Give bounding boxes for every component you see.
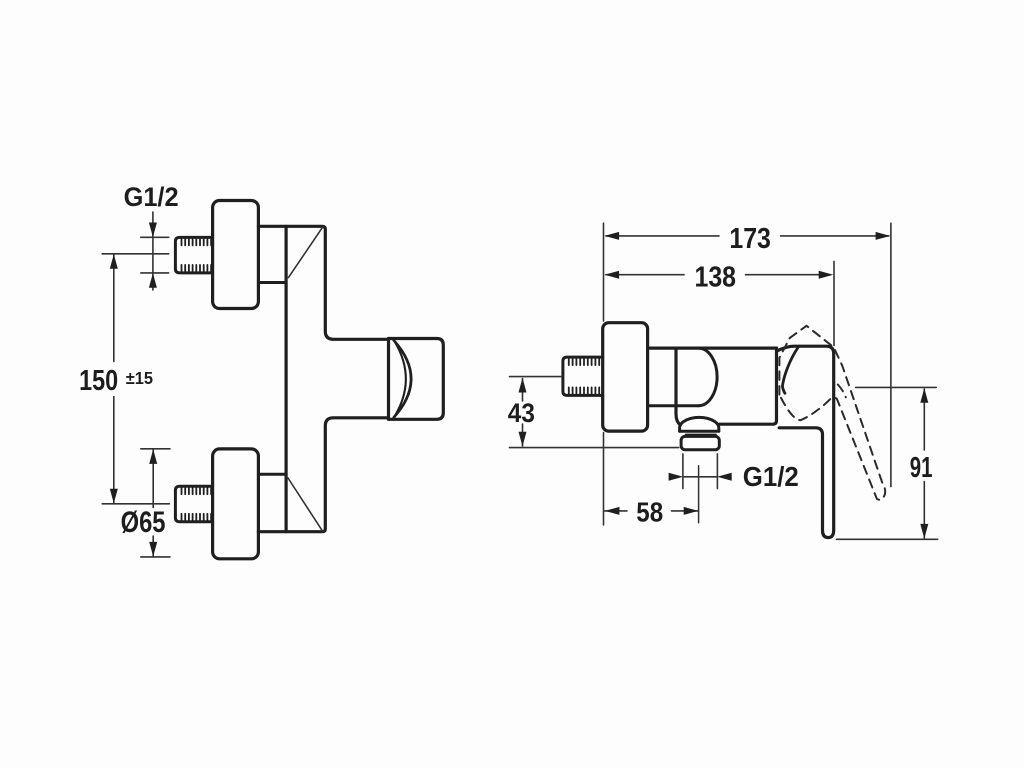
outlet nut G1/2 xyxy=(681,436,719,449)
wall flange (side) xyxy=(603,323,648,431)
connector bottom edge xyxy=(648,404,699,407)
91 reference lines xyxy=(837,387,938,539)
cartridge dome arc xyxy=(699,348,718,406)
main plate outline xyxy=(258,226,388,339)
handle cap and lever (solid, down position) xyxy=(777,346,834,537)
G1/2 arrow down xyxy=(149,223,157,238)
Ø65 arrow down xyxy=(149,542,157,557)
G1/2 arrow up xyxy=(149,273,157,288)
150 dimension reference lines xyxy=(102,254,169,504)
43 dimension line xyxy=(522,379,524,447)
Ø65 dimension line xyxy=(152,449,154,556)
svg-text:150: 150 xyxy=(79,365,118,397)
valve left edge xyxy=(676,348,680,425)
svg-text:G1/2: G1/2 xyxy=(124,182,179,212)
G1/2 outlet dimension line xyxy=(683,476,718,478)
top connector block edges xyxy=(258,281,286,284)
150 arrow down xyxy=(110,489,118,504)
G1/2 extension ticks xyxy=(141,237,169,273)
svg-text:±15: ±15 xyxy=(126,368,154,388)
43 reference lines xyxy=(510,377,679,448)
bottom chamfer diagonal xyxy=(288,478,323,531)
bottom flange xyxy=(213,449,259,559)
svg-text:173: 173 xyxy=(729,223,771,255)
138 dimension line xyxy=(606,274,830,276)
bottom inlet nipple xyxy=(175,486,212,522)
outlet bell xyxy=(680,417,719,431)
svg-text:138: 138 xyxy=(695,261,737,293)
svg-text:91: 91 xyxy=(910,452,933,484)
body right edge and bottom edge xyxy=(720,348,777,424)
150 dimension line xyxy=(113,254,115,504)
svg-text:Ø65: Ø65 xyxy=(121,506,166,539)
handle pivot dash xyxy=(838,385,846,398)
handle neck silhouette xyxy=(782,347,798,393)
150 arrow up xyxy=(110,254,118,269)
top chamfer diagonal xyxy=(288,227,322,277)
handle raised position (dashed) xyxy=(779,326,885,500)
top flange xyxy=(213,201,259,309)
outlet centre line xyxy=(698,466,700,523)
plate left edge xyxy=(285,226,288,531)
svg-text:58: 58 xyxy=(636,497,663,528)
outlet thin ring xyxy=(686,433,716,435)
Ø65 extension ticks xyxy=(141,449,170,557)
side inlet nipple xyxy=(563,357,603,395)
handle knob (front) xyxy=(389,339,444,420)
58 dimension line xyxy=(605,510,699,512)
knob dome arcs xyxy=(394,340,411,417)
body top edge xyxy=(648,347,777,350)
Ø65 arrow up xyxy=(149,449,157,464)
wall reference extension line xyxy=(603,223,605,525)
top inlet nipple G1/2 xyxy=(175,237,212,273)
G1/2 dimension line vertical xyxy=(152,212,154,290)
173 dimension line xyxy=(606,235,889,237)
svg-text:G1/2: G1/2 xyxy=(743,461,799,492)
173 right extension line xyxy=(890,223,892,486)
91 dimension line xyxy=(923,389,925,538)
svg-text:43: 43 xyxy=(508,398,535,428)
bottom connector block edges xyxy=(258,473,286,476)
138 right extension line xyxy=(833,261,835,345)
G1/2 outlet extension lines xyxy=(683,454,718,489)
